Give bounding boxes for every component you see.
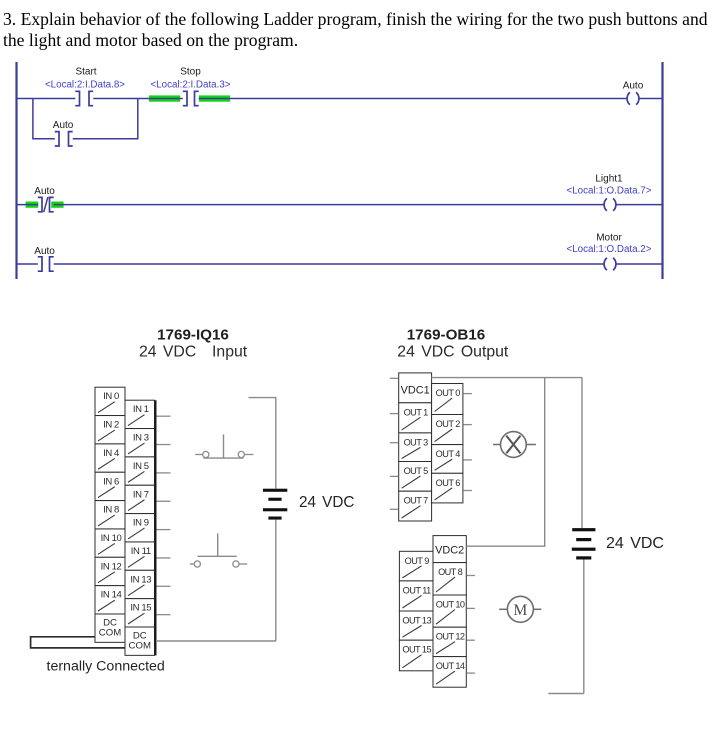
input terminal cell IN 5 (right column) — [125, 457, 155, 485]
push button PB2 movable bar (above contacts = open) — [198, 555, 237, 557]
push button PB2 leads and circles — [190, 561, 248, 567]
label 24 VDC (output battery) — [606, 535, 664, 552]
output module subtitle 24 VDC Output — [397, 344, 509, 361]
svg-text:IN 0: IN 0 — [103, 391, 119, 402]
svg-text:Start: Start — [75, 67, 96, 78]
svg-text:<Local:2:I.Data.3>: <Local:2:I.Data.3> — [150, 80, 230, 91]
output terminal cell OUT 11 (lower left column) — [399, 581, 433, 611]
svg-text:M: M — [514, 602, 528, 619]
stub wire right of IN 7 — [157, 500, 171, 502]
contact Auto (XIC) on branch — [53, 120, 74, 146]
output terminal cell OUT 15 (lower left column) — [399, 640, 433, 671]
contact Stop (XIC) <Local:2:I.Data.3> — [150, 67, 230, 106]
coil Motor (OTE) <Local:1:O.Data.2> — [567, 233, 652, 271]
push button PB1 movable bar (below contacts = closed) — [204, 457, 244, 459]
svg-text:IN 2: IN 2 — [103, 420, 119, 431]
svg-text:OUT 0: OUT 0 — [436, 388, 461, 398]
input terminal cell IN 9 (right column) — [125, 514, 155, 542]
stub wire right of IN 3 — [157, 444, 171, 446]
push button PB1 plunger — [223, 435, 225, 459]
stub wire left of upper output cell at y=509.3 — [390, 508, 398, 510]
svg-text:OUT 2: OUT 2 — [436, 419, 461, 429]
stub wire right of IN 5 — [157, 472, 171, 474]
svg-text:IN 7: IN 7 — [133, 489, 149, 500]
input module title 1769-IQ16 — [157, 327, 229, 344]
svg-text:ternally Connected: ternally Connected — [47, 659, 165, 675]
output terminal cell OUT 4 (upper right column) — [432, 445, 463, 474]
wire Motor coil to right rail — [616, 263, 662, 265]
output terminal cell OUT 7 (upper left column) — [399, 491, 432, 521]
input terminal cell IN 4 (left column) — [95, 444, 125, 472]
svg-text:COM: COM — [99, 628, 121, 639]
stub wire right of upper output cell at y=424.6 — [463, 424, 472, 426]
output terminal cell OUT 8 (lower right column) — [433, 563, 466, 595]
stub wire right of lower output cell at y=640.2 — [467, 639, 475, 641]
output terminal cell OUT 10 (lower right column) — [433, 595, 466, 627]
svg-text:IN 5: IN 5 — [133, 461, 149, 472]
input terminal cell IN 0 (left column) — [95, 387, 125, 415]
green highlight bar after Stop contact — [199, 95, 230, 101]
push button PB1 (normally closed, Stop) leads and circles — [195, 451, 253, 457]
svg-text:IN 10: IN 10 — [101, 533, 122, 544]
input terminal cell IN 8 (left column) — [95, 501, 125, 529]
right power rail — [661, 62, 663, 279]
svg-text:OUT 8: OUT 8 — [438, 567, 463, 577]
svg-text:OUT 12: OUT 12 — [436, 632, 465, 642]
svg-text:<Local:2:I.Data.8>: <Local:2:I.Data.8> — [45, 80, 125, 91]
input terminal cell IN 14 (left column) — [95, 586, 125, 614]
svg-text:OUT 7: OUT 7 — [404, 496, 429, 506]
wire under green to Stop — [149, 98, 183, 100]
wire rung3 contact to Motor coil — [54, 263, 604, 265]
svg-text:OUT 9: OUT 9 — [405, 556, 430, 566]
svg-text:VDC1: VDC1 — [401, 384, 430, 396]
stub wire right of IN 9 — [157, 529, 171, 531]
input supply right vertical wire upper — [275, 398, 277, 489]
contact Start (XIC) <Local:2:I.Data.8> — [45, 67, 125, 106]
lamp X symbol with leads — [493, 432, 536, 458]
green highlight bar before Stop contact — [149, 95, 180, 101]
output terminal cell OUT 1 (upper left column) — [399, 403, 432, 433]
output wire below battery — [583, 560, 585, 694]
stub wire left of upper output cell at y=378.3 — [390, 377, 398, 379]
stub wire right of IN 11 — [157, 557, 171, 559]
svg-text:Auto: Auto — [34, 246, 55, 257]
input supply top wire — [249, 397, 277, 399]
svg-text:OUT 1: OUT 1 — [404, 407, 429, 417]
input terminal cell IN 6 (left column) — [95, 472, 125, 500]
svg-text:IN 6: IN 6 — [103, 476, 119, 487]
output supply top wire from VDC1 — [432, 377, 582, 379]
svg-text:Auto: Auto — [34, 186, 55, 197]
output terminal cell VDC1 (upper left column) — [399, 373, 432, 403]
stub wire right of lower output cell at y=673.1 — [467, 672, 475, 674]
stub wire right of IN 15 — [157, 614, 171, 616]
svg-text:Light1: Light1 — [595, 174, 623, 185]
wire Light1 coil to right rail — [616, 204, 662, 206]
input terminal cell IN 7 (right column) — [125, 485, 155, 513]
coil Light1 (OTE) <Local:1:O.Data.7> — [567, 174, 652, 211]
output terminal cell OUT 14 (lower right column) — [433, 657, 466, 688]
svg-text:IN 13: IN 13 — [130, 574, 151, 585]
contact Auto (XIO normally closed) rung2 — [34, 186, 55, 212]
svg-text:OUT 3: OUT 3 — [404, 437, 429, 447]
svg-text:IN 12: IN 12 — [101, 561, 122, 572]
push button PB2 (normally open, Start) plunger — [217, 533, 219, 556]
output terminal cell OUT 13 (lower left column) — [399, 611, 433, 640]
wire Stop contact to Auto coil — [199, 98, 627, 100]
input terminal cell IN 1 (right column) — [125, 400, 155, 428]
branch start vertical — [32, 99, 34, 139]
input supply right vertical wire lower — [275, 520, 277, 641]
stub wire right of IN 13 — [157, 585, 171, 587]
input terminal cell IN 11 (right column) — [125, 542, 155, 570]
input module subtitle 24 VDC Input — [139, 344, 248, 361]
green highlight bar before Auto NC contact — [26, 202, 39, 208]
input right column heavy edge — [154, 400, 156, 655]
stub wire left of upper output cell at y=442.7 — [390, 442, 398, 444]
svg-text:24 VDC Input: 24 VDC Input — [139, 344, 248, 361]
wire branch bottom left — [32, 138, 55, 140]
contact Auto (XIC) rung3 — [34, 246, 55, 271]
output bottom dangling wire — [548, 693, 584, 695]
input terminal cell IN 3 (right column) — [125, 429, 155, 457]
internally-connected loop bar at DC COM — [31, 637, 126, 648]
output terminal cell OUT 0 (upper right column) — [432, 384, 463, 415]
wire rung2 contact to Light1 coil — [54, 204, 604, 206]
svg-text:1769-OB16: 1769-OB16 — [407, 327, 486, 344]
svg-text:Auto: Auto — [623, 80, 644, 91]
svg-text:24 VDC: 24 VDC — [606, 535, 664, 552]
svg-text:OUT 11: OUT 11 — [403, 585, 431, 595]
motor M symbol with leads — [499, 596, 541, 622]
input terminal cell IN 2 (left column) — [95, 416, 125, 444]
output terminal cell OUT 6 (upper right column) — [432, 473, 463, 503]
svg-text:IN 9: IN 9 — [133, 518, 149, 529]
stub wire right of lower output cell at y=608.4 — [467, 607, 475, 609]
output terminal cell OUT 9 (lower left column) — [399, 551, 433, 581]
svg-text:IN 14: IN 14 — [101, 590, 122, 601]
svg-text:OUT 10: OUT 10 — [436, 600, 465, 610]
output terminal cell OUT 2 (upper right column) — [432, 415, 463, 445]
branch end vertical — [137, 99, 139, 139]
output wire horizontal into VDC2 — [466, 545, 545, 547]
label 24 VDC (input battery) — [299, 494, 354, 511]
output wire vertical down to VDC2 — [544, 378, 546, 547]
svg-text:<Local:1:O.Data.7>: <Local:1:O.Data.7> — [567, 185, 652, 196]
wire rung3 rail to contact — [17, 263, 38, 265]
output terminal cell VDC2 (lower right column) — [433, 536, 466, 563]
svg-text:OUT 13: OUT 13 — [402, 616, 431, 626]
input supply bottom wire to DC COM — [157, 640, 276, 642]
wire rung1 left rail to Start contact — [17, 98, 76, 100]
output module title 1769-OB16 — [407, 327, 486, 344]
input terminal cell DC COM (left column) — [95, 614, 125, 642]
stub wire right of upper output cell at y=459.9 — [463, 459, 472, 461]
output terminal cell OUT 12 (lower right column) — [433, 627, 466, 656]
green highlight bar after Auto NC contact — [51, 202, 63, 208]
wire Auto coil to right rail — [639, 98, 662, 100]
stub wire left of upper output cell at y=476.4 — [390, 475, 398, 477]
svg-text:Motor: Motor — [596, 233, 622, 244]
wire branch bottom right — [73, 138, 139, 140]
wire Start contact to branch end — [93, 98, 149, 100]
left power rail — [15, 62, 17, 279]
svg-text:24 VDC: 24 VDC — [299, 494, 354, 511]
svg-text:Stop: Stop — [180, 67, 201, 78]
stub wire right of upper output cell at y=393.6 — [463, 393, 472, 395]
coil Auto (OTE) — [623, 80, 644, 104]
svg-text:IN 11: IN 11 — [131, 546, 151, 557]
svg-text:OUT 6: OUT 6 — [436, 478, 461, 488]
svg-text:OUT 5: OUT 5 — [404, 466, 429, 476]
svg-text:VDC2: VDC2 — [435, 545, 464, 557]
svg-text:IN 15: IN 15 — [130, 603, 151, 614]
svg-text:<Local:1:O.Data.2>: <Local:1:O.Data.2> — [567, 244, 652, 255]
battery B1 24 VDC (input side) — [263, 489, 287, 520]
svg-text:IN 8: IN 8 — [103, 505, 119, 516]
svg-text:OUT 14: OUT 14 — [436, 661, 465, 671]
svg-text:IN 1: IN 1 — [133, 404, 149, 415]
output terminal cell OUT 3 (upper left column) — [399, 433, 432, 462]
svg-text:IN 3: IN 3 — [133, 433, 149, 444]
stub wire right of IN 1 — [157, 415, 171, 417]
stub wire right of lower output cell at y=575.5 — [467, 575, 475, 577]
input terminal cell IN 15 (right column) — [125, 599, 155, 627]
svg-text:COM: COM — [129, 641, 151, 652]
caption ternally Connected — [47, 659, 165, 675]
svg-text:Auto: Auto — [53, 120, 74, 131]
input terminal cell DC COM (right column) — [125, 627, 155, 655]
output wire vertical down to battery — [581, 378, 583, 529]
battery B2 24 VDC (output side) — [572, 528, 596, 559]
svg-text:IN 4: IN 4 — [103, 448, 119, 459]
svg-text:24 VDC Output: 24 VDC Output — [397, 344, 509, 361]
svg-text:OUT 4: OUT 4 — [436, 449, 461, 459]
stub wire left of upper output cell at y=413.6 — [390, 413, 398, 415]
input terminal cell IN 12 (left column) — [95, 557, 125, 585]
svg-text:1769-IQ16: 1769-IQ16 — [157, 327, 229, 344]
input terminal cell IN 10 (left column) — [95, 529, 125, 557]
output terminal cell OUT 5 (upper left column) — [399, 462, 432, 492]
stub wire right of upper output cell at y=490.5 — [463, 490, 472, 492]
input terminal cell IN 13 (right column) — [125, 570, 155, 598]
svg-text:OUT 15: OUT 15 — [402, 645, 431, 655]
wire rung2 rail to contact — [17, 204, 39, 206]
